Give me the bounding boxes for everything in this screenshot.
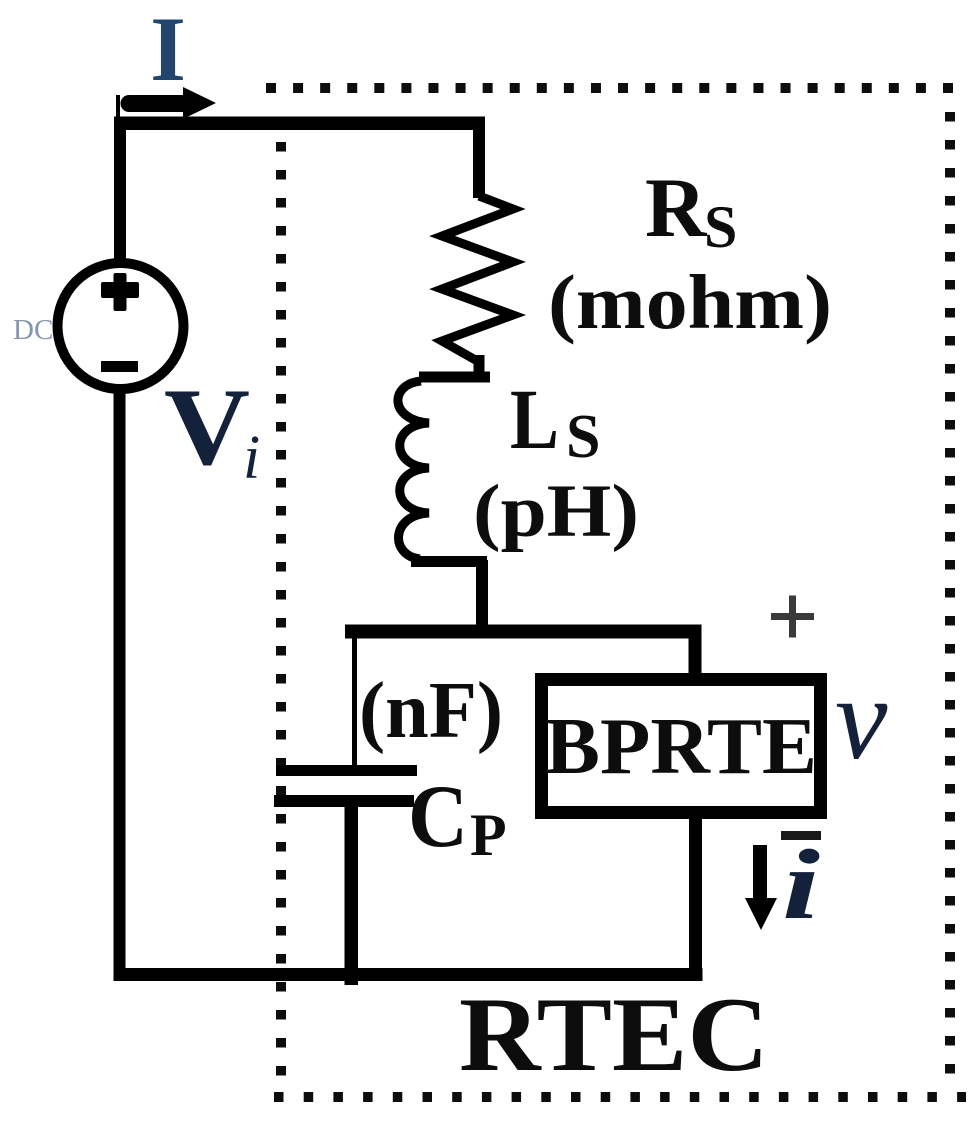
left dotted edge xyxy=(276,142,286,1076)
wire: parallel-section top horizontal xyxy=(345,625,702,639)
current arrow I (points right) xyxy=(129,95,186,112)
inductor LS bottom lead xyxy=(476,560,488,632)
svg-text:R: R xyxy=(645,161,708,255)
svg-text:(nF): (nF) xyxy=(359,667,503,755)
current arrow i (down) xyxy=(753,845,767,902)
top dotted edge xyxy=(266,83,953,93)
resistor RS bottom lead xyxy=(474,355,485,377)
source minus bar xyxy=(101,361,138,372)
capacitor CP bottom wire xyxy=(345,807,359,985)
svg-text:S: S xyxy=(704,194,737,260)
inductor LS bottom bar xyxy=(411,556,487,567)
inductor LS coil xyxy=(398,381,429,559)
inductor LS top bar xyxy=(419,372,490,383)
source plus terminal xyxy=(114,273,127,311)
svg-text:P: P xyxy=(470,802,507,868)
wire: right vertical lower (BPRTE to bottom) xyxy=(689,815,702,981)
resistor RS zigzag xyxy=(442,196,513,362)
voltage source V (DC) circle xyxy=(58,263,184,389)
right dotted edge xyxy=(945,112,955,1074)
svg-text:DC: DC xyxy=(13,314,53,346)
bottom dotted edge xyxy=(274,1092,966,1102)
BPRTE box U1 xyxy=(542,680,821,813)
svg-text:RTEC: RTEC xyxy=(459,976,769,1093)
svg-text:S: S xyxy=(566,403,600,471)
minus terminal label xyxy=(781,831,821,840)
wire: left vertical lower xyxy=(114,388,126,981)
svg-text:(pH): (pH) xyxy=(473,470,639,553)
wire: right vertical upper (to BPRTE) xyxy=(689,630,702,678)
svg-text:i: i xyxy=(243,424,260,492)
resistor RS top lead xyxy=(473,128,485,198)
plus terminal label xyxy=(771,596,814,638)
svg-text:(mohm): (mohm) xyxy=(548,259,832,345)
svg-text:C: C xyxy=(408,768,468,866)
svg-text:L: L xyxy=(510,371,559,467)
current arrow I tail tick xyxy=(116,95,120,121)
wire: left vertical upper (source top lead) xyxy=(114,117,126,267)
svg-text:BPRTE: BPRTE xyxy=(545,703,817,791)
capacitor CP top plate xyxy=(276,765,417,776)
wire: top horizontal from source to resistor xyxy=(114,117,485,131)
dotted RTEC boundary box xyxy=(266,88,966,1097)
svg-text:i: i xyxy=(782,829,820,940)
capacitor CP bottom plate xyxy=(274,795,414,807)
svg-text:I: I xyxy=(150,0,186,100)
svg-text:V: V xyxy=(164,366,250,488)
svg-text:v: v xyxy=(835,653,888,784)
capacitor CP thin top lead xyxy=(352,638,357,768)
wire: bottom horizontal xyxy=(114,968,703,981)
